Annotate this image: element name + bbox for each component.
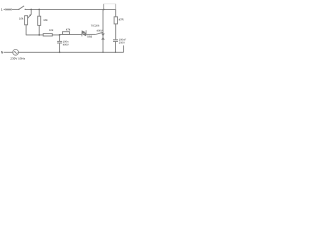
wire (26, 34, 60, 36)
svg-text:10k: 10k (49, 29, 54, 32)
fuse F1 (5, 8, 12, 10)
ac source B1 (10, 49, 25, 60)
resistor R3 (43, 29, 54, 36)
svg-text:400V: 400V (97, 29, 103, 32)
svg-text:10k: 10k (19, 18, 24, 21)
resistor R5 (114, 9, 123, 39)
junction dot (59, 51, 61, 53)
wire top rail (25, 8, 116, 10)
svg-text:230V 50Hz: 230V 50Hz (10, 56, 25, 60)
wire (86, 33, 96, 35)
junction dot (59, 34, 61, 36)
resistor R4 (63, 28, 71, 34)
svg-text:400V: 400V (63, 44, 69, 47)
resistor R2 (38, 9, 49, 35)
wire (4, 51, 13, 53)
svg-text:L: L (1, 8, 3, 12)
diac D1 (82, 30, 87, 36)
junction dot (102, 52, 103, 53)
capacitor C1 (57, 35, 69, 52)
junction dot (115, 52, 116, 53)
wire (60, 33, 83, 35)
triac T1 (91, 9, 105, 52)
svg-text:TIC206: TIC206 (91, 25, 100, 28)
junction dot (38, 9, 40, 11)
svg-text:DB3: DB3 (87, 36, 92, 39)
svg-text:10k: 10k (43, 19, 48, 22)
capacitor C2 (113, 39, 127, 53)
junction dot (103, 9, 105, 11)
svg-text:47R: 47R (119, 19, 124, 22)
svg-text:47k: 47k (66, 28, 71, 31)
junction dot (38, 34, 40, 36)
potentiometer P1 (19, 9, 31, 35)
wire stub (123, 45, 125, 52)
wire (4, 8, 19, 10)
lamp load LA1 (103, 4, 105, 10)
wire gate diagonal (96, 32, 103, 34)
switch S1 (18, 9, 19, 10)
junction dot (30, 9, 32, 11)
svg-text:250V: 250V (119, 41, 125, 44)
wire bottom rail (19, 51, 124, 53)
